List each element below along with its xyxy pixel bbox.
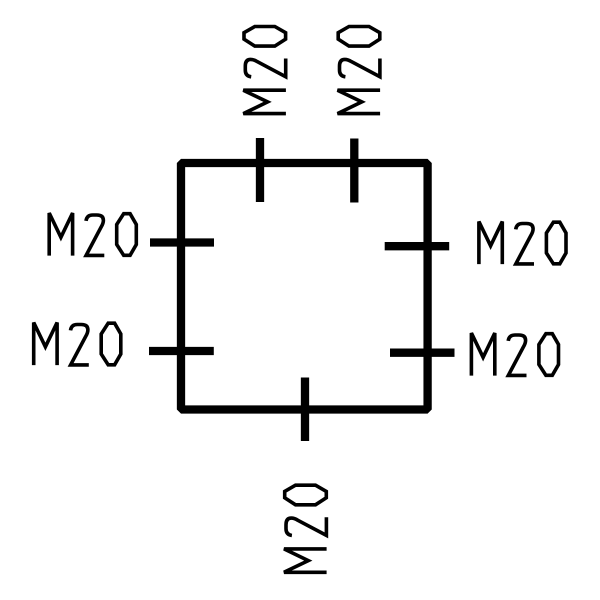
- cable gland entry tick, top wall #1: [256, 138, 264, 202]
- enclosure body (junction box outline): [181, 163, 428, 410]
- cable gland entry tick, left wall lower: [149, 347, 214, 355]
- label M20, left upper: [49, 213, 136, 256]
- label M20, top #2 (rotated): [338, 27, 381, 114]
- label M20, left lower: [34, 323, 121, 366]
- cable gland entry tick, right wall upper: [385, 242, 450, 250]
- label M20, right upper: [479, 222, 566, 265]
- cable gland entry tick, right wall lower: [390, 349, 455, 357]
- cable gland entry tick, left wall upper: [150, 238, 214, 246]
- cable gland entry tick, bottom wall: [301, 378, 309, 442]
- label M20, bottom (rotated): [284, 485, 327, 572]
- label M20, top #1 (rotated): [243, 27, 286, 114]
- label M20, right lower: [471, 333, 558, 376]
- cable gland entry tick, top wall #2: [350, 139, 358, 203]
